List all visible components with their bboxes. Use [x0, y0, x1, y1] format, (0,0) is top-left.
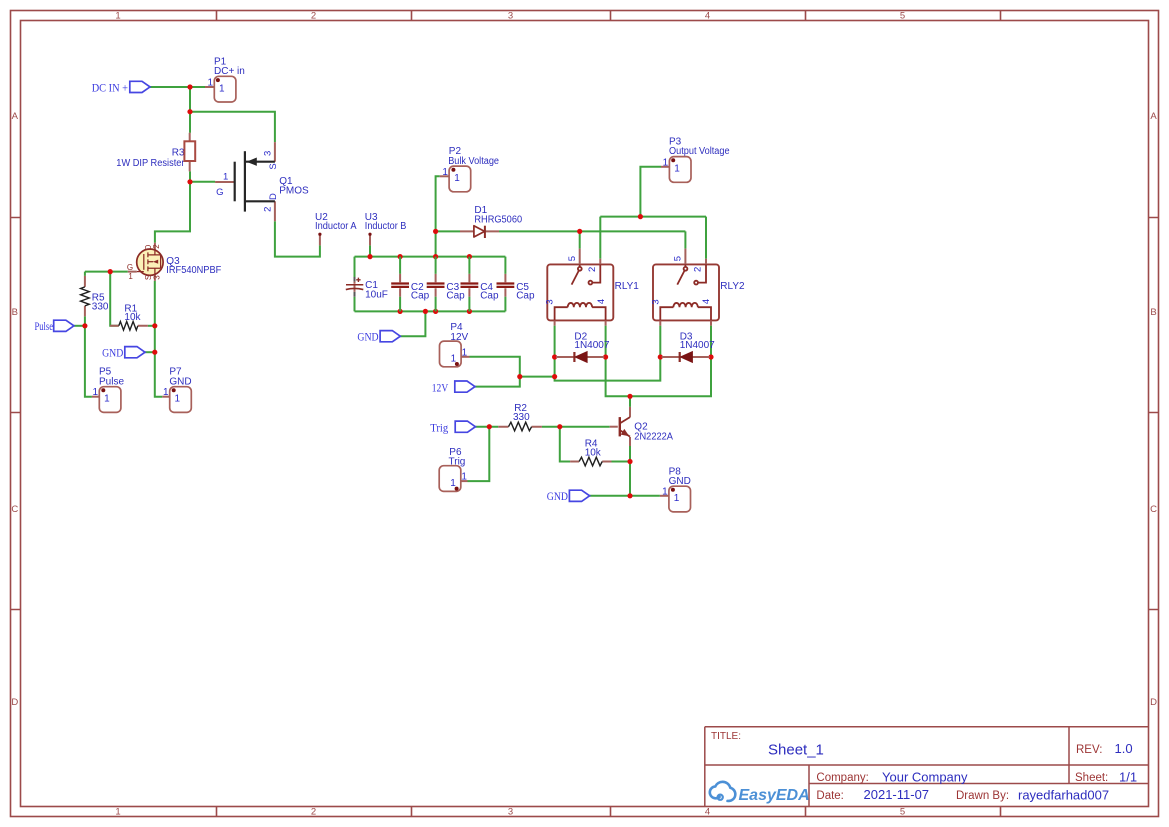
titleblock field names — [711, 731, 1108, 802]
svg-text:1: 1 — [442, 167, 448, 178]
diode D3 1N4007 — [662, 332, 715, 363]
svg-text:Cap: Cap — [516, 290, 535, 301]
capacitor C5 — [497, 257, 535, 312]
svg-text:2: 2 — [263, 207, 274, 212]
connector P3 Output Voltage — [661, 136, 730, 182]
resistor R4 — [570, 439, 611, 466]
connector P5 — [92, 367, 125, 413]
connector P6 Trig — [439, 447, 467, 491]
wire capacitor bottom rail — [355, 310, 506, 312]
transistor Q3 IRF540NPBF — [127, 243, 221, 281]
svg-text:3: 3 — [650, 299, 661, 304]
svg-text:A: A — [1150, 111, 1157, 122]
svg-text:Cap: Cap — [446, 290, 465, 301]
svg-text:2: 2 — [152, 244, 161, 249]
wire capacitor top rail — [355, 256, 506, 258]
connector P2 Bulk Voltage — [440, 146, 500, 192]
svg-text:5: 5 — [900, 807, 905, 818]
netflag GND left — [102, 347, 145, 360]
svg-text:Output Voltage: Output Voltage — [669, 146, 730, 157]
svg-text:3: 3 — [508, 807, 513, 818]
svg-text:3: 3 — [508, 11, 513, 22]
svg-text:3: 3 — [153, 275, 162, 280]
svg-text:GND: GND — [169, 376, 191, 387]
svg-text:G: G — [216, 187, 223, 198]
svg-text:Trig: Trig — [430, 422, 448, 434]
netflag Trig — [430, 421, 475, 434]
svg-text:GND: GND — [547, 491, 568, 503]
diode D2 1N4007 — [556, 332, 610, 363]
connector U2 Inductor A — [315, 212, 357, 246]
svg-text:R3: R3 — [172, 147, 185, 158]
svg-text:Pulse: Pulse — [35, 321, 54, 333]
svg-text:RLY2: RLY2 — [720, 281, 745, 292]
relay RLY2 — [650, 249, 745, 326]
svg-text:1: 1 — [104, 393, 110, 404]
transistor Q2 2N2222A — [610, 407, 674, 446]
netflag DC IN + — [92, 81, 150, 94]
transistor Q1 PMOS — [215, 142, 309, 221]
svg-text:1/1: 1/1 — [1119, 770, 1137, 785]
wire R2 to Q2 base — [542, 426, 610, 428]
netflag GND bottom — [547, 490, 590, 503]
svg-text:RLY1: RLY1 — [615, 281, 640, 292]
svg-text:GND: GND — [102, 347, 123, 359]
svg-text:330: 330 — [513, 412, 530, 423]
svg-text:1: 1 — [128, 272, 133, 281]
svg-text:1: 1 — [461, 472, 467, 483]
svg-text:3: 3 — [545, 299, 556, 304]
capacitor C3 — [427, 257, 465, 312]
svg-text:2N2222A: 2N2222A — [634, 431, 673, 442]
wire U3 to rail — [369, 245, 371, 256]
svg-text:1: 1 — [223, 171, 228, 182]
wire RLY coil pin4 jog to Q2 — [606, 326, 711, 397]
svg-text:G: G — [127, 263, 133, 272]
svg-text:10uF: 10uF — [365, 289, 388, 300]
wire net Q3 gate / R5 / R1 — [74, 272, 155, 397]
svg-text:1: 1 — [207, 78, 213, 89]
TITLEBLOCK — [705, 727, 1149, 806]
svg-text:1: 1 — [674, 163, 680, 174]
svg-text:2: 2 — [587, 267, 598, 272]
wire Trig net — [468, 427, 499, 481]
svg-text:4: 4 — [705, 11, 710, 22]
svg-text:1: 1 — [115, 11, 120, 22]
svg-text:TITLE:: TITLE: — [711, 731, 741, 742]
svg-text:1: 1 — [451, 354, 457, 365]
svg-text:RHRG5060: RHRG5060 — [474, 214, 522, 225]
capacitor C2 — [391, 257, 429, 312]
svg-text:2: 2 — [693, 267, 704, 272]
svg-text:1: 1 — [93, 387, 99, 398]
titleblock field values — [768, 741, 1137, 803]
svg-text:1: 1 — [663, 157, 669, 168]
svg-text:rayedfarhad007: rayedfarhad007 — [1018, 788, 1109, 803]
svg-text:1: 1 — [115, 807, 120, 818]
svg-text:B: B — [1150, 307, 1156, 318]
wire P2 drop to rail — [436, 176, 440, 256]
connector P7 — [162, 367, 191, 413]
svg-text:C: C — [11, 504, 18, 515]
svg-text:1W DIP Resister: 1W DIP Resister — [116, 158, 185, 169]
connector P8 GND — [660, 466, 691, 512]
capacitor C4 — [461, 257, 499, 312]
svg-text:5: 5 — [567, 256, 578, 261]
svg-text:4: 4 — [705, 807, 710, 818]
relay RLY1 — [545, 249, 640, 326]
svg-text:1.0: 1.0 — [1115, 741, 1133, 756]
svg-text:D: D — [268, 193, 279, 200]
wire 12V net — [470, 357, 555, 387]
connector P4 12V — [440, 322, 470, 367]
EasyEDA logo — [710, 782, 810, 804]
diode D1 RHRG5060 — [460, 205, 522, 238]
svg-text:10k: 10k — [585, 448, 602, 459]
wire net Q3 source to GND / P7 — [145, 281, 163, 397]
svg-text:330: 330 — [92, 301, 109, 312]
svg-text:1: 1 — [219, 84, 225, 95]
svg-text:C: C — [1150, 504, 1157, 515]
svg-text:1: 1 — [175, 393, 181, 404]
svg-text:S: S — [268, 163, 279, 169]
capacitor C1 10uF — [346, 257, 388, 312]
resistor R5 — [81, 276, 109, 317]
svg-text:1: 1 — [662, 486, 668, 497]
svg-text:Inductor A: Inductor A — [315, 221, 357, 232]
svg-text:1: 1 — [454, 173, 460, 184]
wire Q1 drain to U2 — [275, 221, 320, 256]
svg-text:PMOS: PMOS — [279, 186, 309, 197]
svg-text:Drawn By:: Drawn By: — [956, 790, 1009, 802]
netflag Pulse — [35, 320, 74, 333]
svg-text:5: 5 — [673, 256, 684, 261]
svg-text:Cap: Cap — [411, 290, 430, 301]
wire Q2 collector / emitter — [629, 396, 631, 496]
resistor R1 — [110, 303, 148, 330]
svg-text:1N4007: 1N4007 — [574, 340, 609, 351]
wire GND to P8 — [589, 495, 660, 497]
wire RLY pin5 drops — [580, 231, 686, 248]
svg-text:EasyEDA: EasyEDA — [739, 787, 810, 804]
svg-text:A: A — [12, 111, 19, 122]
svg-text:DC IN +: DC IN + — [92, 82, 128, 94]
svg-text:1: 1 — [163, 387, 169, 398]
svg-text:Date:: Date: — [816, 790, 844, 802]
svg-text:Your Company: Your Company — [882, 770, 968, 785]
netflag 12V — [432, 381, 475, 394]
svg-text:IRF540NPBF: IRF540NPBF — [166, 265, 221, 276]
wire RLY coil pin3 jog — [555, 326, 661, 381]
wire P3 to RLY pin2 — [600, 167, 706, 259]
svg-text:1N4007: 1N4007 — [680, 340, 715, 351]
svg-text:Inductor B: Inductor B — [365, 221, 407, 232]
resistor R3 — [116, 133, 195, 172]
netflag GND mid — [357, 331, 400, 344]
svg-text:4: 4 — [701, 299, 712, 304]
svg-text:3: 3 — [263, 151, 274, 156]
svg-text:2021-11-07: 2021-11-07 — [864, 787, 930, 802]
svg-text:5: 5 — [900, 11, 905, 22]
svg-text:1: 1 — [462, 347, 468, 358]
titleblock grid lines — [705, 727, 1149, 806]
svg-text:1: 1 — [450, 478, 456, 489]
svg-text:10k: 10k — [124, 312, 141, 323]
svg-text:D: D — [1150, 697, 1157, 708]
connector P1 — [205, 56, 245, 102]
svg-text:GND: GND — [357, 331, 378, 343]
svg-text:D: D — [11, 697, 18, 708]
svg-text:B: B — [12, 307, 18, 318]
resistor R2 — [498, 403, 542, 431]
svg-text:Sheet:: Sheet: — [1075, 772, 1108, 784]
svg-text:Bulk Voltage: Bulk Voltage — [448, 156, 499, 167]
svg-text:2: 2 — [311, 807, 316, 818]
svg-text:4: 4 — [596, 299, 607, 304]
svg-text:Sheet_1: Sheet_1 — [768, 742, 824, 759]
connector U3 Inductor B — [365, 212, 407, 246]
wire D1 row — [436, 230, 686, 232]
svg-text:REV:: REV: — [1076, 744, 1102, 756]
svg-text:Pulse: Pulse — [99, 376, 124, 387]
svg-text:Cap: Cap — [480, 290, 499, 301]
svg-text:Company:: Company: — [816, 772, 868, 784]
wire R4 branch — [560, 427, 630, 462]
svg-text:12V: 12V — [432, 382, 449, 394]
svg-text:2: 2 — [311, 11, 316, 22]
svg-text:1: 1 — [674, 493, 680, 504]
wire GND flag to bottom rail — [400, 311, 425, 336]
wire net DC IN to P1 and R3 — [150, 87, 275, 243]
